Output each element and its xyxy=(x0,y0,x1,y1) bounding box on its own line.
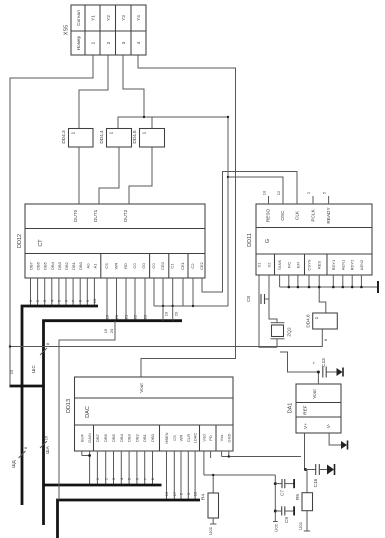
wire stubs DD11 bottom pins to ground rail xyxy=(280,275,362,287)
wire OSC stub2 xyxy=(268,196,270,199)
svg-text:LDAC: LDAC xyxy=(193,433,198,444)
capacitor C16 xyxy=(306,464,335,487)
svg-text:DB7: DB7 xyxy=(95,433,100,442)
svg-text:AEN1: AEN1 xyxy=(340,259,345,270)
pin numbers of DD12 data pins xyxy=(28,298,97,303)
svg-text:OUT0: OUT0 xyxy=(73,209,78,222)
wire RESO stub xyxy=(268,196,270,204)
wire DD4.5 output to DD12 OUT2 xyxy=(129,147,152,204)
svg-text:C8: C8 xyxy=(246,296,251,302)
wire DD13 data pins to DAC data bus xyxy=(97,451,152,485)
svg-text:ША: ША xyxy=(45,445,50,453)
wire GND pin to rail A xyxy=(228,451,230,457)
svg-text:CT: CT xyxy=(38,239,44,247)
svg-text:DA1: DA1 xyxy=(288,403,294,414)
svg-text:DB5: DB5 xyxy=(43,261,48,270)
wire Y4 from XS5 pin4 down right side xyxy=(138,55,236,377)
svg-text:OUT1: OUT1 xyxy=(93,209,98,222)
bus jumper between data and address bus xyxy=(10,385,44,388)
svg-text:WR: WR xyxy=(114,263,119,270)
svg-text:Сигнал: Сигнал xyxy=(76,10,81,26)
DD12 bottom pin labels D7-D0 A0 A1 xyxy=(29,261,205,270)
wire DD4.5 input drop xyxy=(151,117,153,129)
svg-text:23: 23 xyxy=(143,314,148,319)
DD11 bottom pin labels xyxy=(257,259,364,271)
wire Vdd pin to horizontal rail B xyxy=(203,451,205,475)
svg-text:Vdd: Vdd xyxy=(201,434,206,441)
svg-text:DD4.3: DD4.3 xyxy=(61,130,66,144)
svg-text:4: 4 xyxy=(136,41,141,44)
svg-text:19: 19 xyxy=(103,328,108,333)
svg-text:20: 20 xyxy=(114,314,119,319)
node dot LH1 joins Y1 wire xyxy=(9,345,11,347)
connector XS5 table xyxy=(64,5,147,55)
wire DD4.6 output to long horizontal LH1 xyxy=(10,329,322,347)
wire gate rail xyxy=(154,305,228,307)
pin numbers DD13 data pins xyxy=(95,477,155,480)
svg-text:+: + xyxy=(312,361,317,364)
svg-text:15: 15 xyxy=(9,369,14,374)
wire C8 to X2 branch xyxy=(265,298,270,300)
svg-text:22: 22 xyxy=(133,314,138,319)
pin numbers DD13 control pins xyxy=(164,491,198,496)
svg-text:DB4: DB4 xyxy=(119,433,124,442)
inverter DD4.3 xyxy=(61,129,93,148)
svg-text:Ucc: Ucc xyxy=(298,521,303,530)
svg-text:Y2: Y2 xyxy=(106,15,111,21)
svg-text:DB3: DB3 xyxy=(57,261,62,270)
svg-text:DD4.4: DD4.4 xyxy=(99,130,104,144)
counter DD12 xyxy=(17,204,205,278)
svg-text:3: 3 xyxy=(121,41,126,44)
svg-text:16: 16 xyxy=(44,435,49,440)
svg-text:CE2: CE2 xyxy=(199,261,204,270)
svg-text:CSYN: CSYN xyxy=(307,259,312,270)
svg-text:A0: A0 xyxy=(85,263,90,269)
svg-text:19: 19 xyxy=(164,311,169,316)
svg-text:1: 1 xyxy=(109,131,114,134)
svg-text:C1: C1 xyxy=(170,263,175,269)
svg-text:CLK: CLK xyxy=(295,210,300,220)
svg-text:DB1: DB1 xyxy=(142,433,147,442)
inverter DD4.6 xyxy=(306,313,338,329)
svg-text:C16: C16 xyxy=(313,478,318,487)
svg-text:C2: C2 xyxy=(190,263,195,269)
svg-text:RDY2: RDY2 xyxy=(350,259,355,270)
capacitor C7 xyxy=(274,479,294,496)
svg-text:R4: R4 xyxy=(201,494,206,500)
wire decoupling column xyxy=(274,475,276,522)
svg-text:HBEN: HBEN xyxy=(164,432,169,443)
svg-text:CS: CS xyxy=(172,435,177,441)
svg-text:DAC: DAC xyxy=(85,406,91,418)
wire Vss pin to rail A xyxy=(221,451,223,457)
wire CLK to rail riser xyxy=(202,172,297,293)
svg-text:Ucc: Ucc xyxy=(274,523,279,532)
svg-text:RESO: RESO xyxy=(266,209,271,223)
wire W6 address taps down left of DD13 xyxy=(59,321,115,500)
svg-text:17: 17 xyxy=(172,491,177,496)
svg-text:12: 12 xyxy=(276,190,281,195)
svg-text:DD4.5: DD4.5 xyxy=(132,130,137,144)
wire DA1 left pin down through C16 node to R5 xyxy=(305,433,308,493)
wire X1 down left side of crystal xyxy=(259,275,277,347)
svg-text:DB4: DB4 xyxy=(50,261,55,270)
wire PD stub xyxy=(210,451,212,458)
wire node H1 feeding DD4.4 and DD4.5 xyxy=(118,117,228,306)
wire DD13 control pins to lower bus xyxy=(167,451,196,500)
wire Y3 from XS5 pin3 xyxy=(123,55,144,117)
capacitor C8 xyxy=(246,294,265,304)
svg-text:CS: CS xyxy=(104,263,109,269)
svg-text:ZQ2: ZQ2 xyxy=(287,327,292,337)
svg-text:BUF: BUF xyxy=(79,433,84,442)
svg-text:ШД: ШД xyxy=(11,459,16,467)
wire Y1 from XS5 pin1 xyxy=(10,55,93,386)
svg-text:10: 10 xyxy=(92,298,97,303)
svg-text:Y4: Y4 xyxy=(136,15,141,21)
svg-text:20: 20 xyxy=(109,328,114,333)
capacitor C9 xyxy=(274,506,294,523)
voltage reference DA1 xyxy=(288,384,342,433)
svg-text:C13: C13 xyxy=(321,358,326,367)
svg-text:DB2: DB2 xyxy=(134,433,139,442)
svg-text:X1: X1 xyxy=(257,262,262,268)
svg-text:1: 1 xyxy=(91,41,96,44)
wire BUF GAIN tie xyxy=(82,451,91,485)
wire OSC stub to gate rail riser xyxy=(228,177,283,204)
svg-text:C9: C9 xyxy=(284,517,289,523)
svg-text:RES: RES xyxy=(317,261,322,270)
wire DD4.3 output to DD12 OUT0 xyxy=(78,147,80,204)
svg-text:DB5: DB5 xyxy=(111,433,116,442)
bus label ShS with width slash xyxy=(31,342,50,373)
bus DAC data bus xyxy=(44,484,162,487)
bus address bus horizontal under DD12 xyxy=(44,321,183,525)
wire READY stub xyxy=(328,196,330,204)
wire RES pin to DD4.6 input xyxy=(319,275,326,313)
wire X2 down to crystal top xyxy=(269,275,277,323)
svg-text:DD13: DD13 xyxy=(66,399,72,413)
svg-text:10: 10 xyxy=(262,190,267,195)
DD11 top pin labels xyxy=(266,207,332,224)
svg-text:DD4.6: DD4.6 xyxy=(306,314,311,328)
svg-text:C7: C7 xyxy=(280,490,285,496)
svg-text:12: 12 xyxy=(193,491,198,496)
svg-text:Vss: Vss xyxy=(219,435,224,442)
svg-text:Vout: Vout xyxy=(139,383,144,393)
svg-text:G0: G0 xyxy=(141,263,146,269)
clock generator DD11 xyxy=(247,204,372,275)
svg-text:OUT2: OUT2 xyxy=(123,209,128,222)
svg-text:DB3: DB3 xyxy=(127,433,132,442)
svg-text:Ucc: Ucc xyxy=(208,526,213,535)
svg-text:DD11: DD11 xyxy=(247,233,253,247)
node dots on gate rail xyxy=(162,305,164,307)
wire rail A xyxy=(222,456,301,458)
svg-text:R5: R5 xyxy=(295,494,300,500)
resistor R5 xyxy=(295,493,313,531)
svg-text:DB1: DB1 xyxy=(71,261,76,270)
svg-text:C0: C0 xyxy=(132,263,137,269)
svg-text:PD: PD xyxy=(208,435,213,441)
svg-text:A1: A1 xyxy=(92,263,97,269)
svg-text:READY: READY xyxy=(326,207,331,224)
ground arrow DA1 xyxy=(341,441,347,449)
wire rail B to C7 column xyxy=(204,474,275,476)
svg-text:DB2: DB2 xyxy=(64,261,69,270)
svg-text:DD12: DD12 xyxy=(17,234,23,248)
svg-text:CE1: CE1 xyxy=(180,261,185,270)
svg-text:DB6: DB6 xyxy=(103,433,108,442)
svg-text:21: 21 xyxy=(124,314,129,319)
svg-text:RD: RD xyxy=(123,263,128,269)
svg-text:EFI: EFI xyxy=(295,262,300,268)
pin numbers above address bus xyxy=(105,314,148,319)
DD13 bottom pin labels xyxy=(79,432,231,443)
svg-text:WR: WR xyxy=(179,435,184,442)
svg-text:1: 1 xyxy=(142,131,147,134)
inverter DD4.5 xyxy=(132,129,165,148)
svg-text:1: 1 xyxy=(314,316,319,319)
svg-text:X2: X2 xyxy=(267,262,272,268)
bus label ShA with width slash xyxy=(40,435,50,454)
resistor R4 xyxy=(201,474,219,535)
svg-text:C0: C0 xyxy=(151,263,156,269)
svg-text:OSC: OSC xyxy=(280,210,285,221)
svg-text:Vout: Vout xyxy=(312,389,317,399)
ground symbol at rail end xyxy=(377,281,379,293)
wire Y2 from XS5 pin2 to DD4.3 input xyxy=(79,55,108,129)
svg-text:G: G xyxy=(265,239,271,243)
node junction H1 xyxy=(143,116,145,118)
wire DD12 CS WR RD pins to address bus xyxy=(107,278,145,321)
wire C13 node left branch xyxy=(280,352,318,372)
svg-text:RDY1: RDY1 xyxy=(331,259,336,270)
wire DA1 right pin to ground xyxy=(329,433,341,445)
bus data bus horizontal under DD12 xyxy=(22,306,98,505)
svg-text:CE0: CE0 xyxy=(160,261,165,270)
wire PCLK stub xyxy=(312,196,314,204)
DAC DD13 xyxy=(66,377,233,451)
svg-text:16: 16 xyxy=(164,491,169,496)
svg-text:PCLK: PCLK xyxy=(311,209,316,222)
svg-text:1: 1 xyxy=(71,131,76,134)
wire taps from gate rail to address bus xyxy=(162,306,164,321)
wire DD12 timer gate pins to rail xyxy=(154,278,193,306)
node dots on ground rail xyxy=(288,286,363,289)
crystal ZQ2 xyxy=(271,323,292,348)
pin numbers above DD11 top stubs xyxy=(262,190,327,195)
svg-text:DB7: DB7 xyxy=(29,261,34,270)
wire DD4.4 output to DD12 OUT1 xyxy=(99,147,119,204)
svg-text:GAIN: GAIN xyxy=(87,433,92,443)
svg-text:Y1: Y1 xyxy=(91,15,96,21)
svg-text:DB0: DB0 xyxy=(150,433,155,442)
svg-text:V+: V+ xyxy=(303,423,308,429)
svg-text:XS5: XS5 xyxy=(64,25,70,35)
svg-text:20: 20 xyxy=(174,311,179,316)
svg-text:DB0: DB0 xyxy=(78,261,83,270)
svg-text:V-: V- xyxy=(326,423,331,428)
bus control bus lower xyxy=(58,500,201,538)
svg-text:CLR: CLR xyxy=(186,434,191,442)
wire DA1 top pin to C13 node xyxy=(317,372,319,384)
svg-text:Номер: Номер xyxy=(76,35,81,50)
svg-text:Y3: Y3 xyxy=(121,15,126,21)
wire DD12 data pins to data bus xyxy=(31,278,95,306)
inverter DD4.4 xyxy=(99,129,132,148)
svg-text:2: 2 xyxy=(106,41,111,44)
svg-text:TANK: TANK xyxy=(277,259,282,270)
bus label ShD with width slash xyxy=(11,446,28,468)
svg-text:GND: GND xyxy=(226,433,231,442)
wire ground rail below DD11 xyxy=(280,286,378,288)
svg-text:AEN2: AEN2 xyxy=(359,259,364,270)
capacitor C13 polarized xyxy=(312,358,344,378)
svg-text:REF: REF xyxy=(303,405,308,415)
svg-text:DB6: DB6 xyxy=(36,261,41,270)
svg-text:ШС: ШС xyxy=(31,365,36,373)
svg-text:F/C: F/C xyxy=(286,262,291,269)
svg-text:19: 19 xyxy=(105,314,110,319)
